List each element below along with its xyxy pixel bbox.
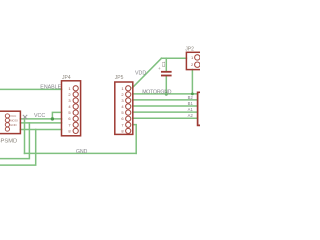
IC U right edge (partial) [198, 92, 201, 125]
wire exit left from IC pin3 net [0, 130, 36, 166]
svg-text:1: 1 [68, 86, 71, 91]
svg-text:JP5: JP5 [115, 75, 124, 81]
wire C1 bottom lead [165, 76, 167, 94]
svg-text:2: 2 [68, 92, 71, 97]
svg-text:6: 6 [68, 116, 71, 121]
capacitor C1 [161, 71, 172, 77]
wire VDD diagonal from JP5 pin1 [132, 58, 161, 88]
svg-text:MOTORGND: MOTORGND [142, 89, 172, 95]
svg-text:B2: B2 [188, 95, 194, 100]
wire C1 top lead [165, 58, 167, 71]
svg-text:VCC: VCC [10, 114, 17, 118]
svg-text:VCC: VCC [34, 113, 45, 119]
svg-text:2: 2 [121, 92, 124, 97]
svg-text:1: 1 [121, 86, 124, 91]
junction dot C1 on MOTORGND [165, 92, 168, 95]
svg-text:VDD: VDD [135, 71, 146, 77]
svg-text:3: 3 [68, 98, 71, 103]
wire A2 from JP5 pin6 [133, 117, 197, 119]
IC left header (partial, cut at edge) [0, 111, 20, 133]
wire JP2 pin2 drop to MOTORGND [191, 70, 193, 94]
svg-text:B1: B1 [188, 101, 194, 106]
svg-text:MOSI: MOSI [10, 119, 18, 123]
wire MOTORGND from JP5 pin2 to U right [133, 93, 197, 95]
svg-text:JP4: JP4 [62, 75, 71, 81]
svg-text:A1: A1 [188, 107, 194, 112]
connector JP4 [62, 81, 81, 136]
junction dot on VCC branch [51, 117, 54, 120]
svg-text:8: 8 [68, 128, 71, 133]
svg-text:JP2: JP2 [185, 47, 194, 53]
svg-text:6: 6 [121, 116, 124, 121]
wire ENABLE net to JP4 pin1 [0, 88, 62, 90]
wire GND horizontal run [25, 152, 137, 154]
svg-text:1: 1 [191, 55, 194, 60]
svg-text:ENABLE: ENABLE [40, 85, 61, 91]
junction dot JP2 pin2 on MOTORGND [191, 93, 194, 96]
wire VDD horizontal to JP2 pin1 [162, 57, 187, 59]
node X marker on GND drop [23, 115, 27, 119]
wire JP5 pin7 to GND run [133, 125, 136, 154]
wire branch VCC to JP4 pin5 [52, 112, 61, 119]
connector JP5 [115, 82, 133, 134]
connector JP2 [186, 52, 203, 69]
wire GND drop from VCC row at x24.5 [24, 119, 26, 153]
wire from IC pin3 to JP4 pin8 [20, 129, 61, 131]
wire exit left from IC pin2 net [0, 123, 29, 159]
svg-text:2: 2 [191, 62, 194, 67]
svg-text:3: 3 [121, 98, 124, 103]
svg-text:4: 4 [68, 104, 71, 109]
wire A1 from JP5 pin5 [133, 111, 197, 113]
svg-text:4: 4 [121, 104, 124, 109]
svg-text:5: 5 [68, 110, 71, 115]
svg-text:A2: A2 [188, 113, 194, 118]
wire VCC net from IC to JP4 pin6 [20, 118, 61, 120]
wire B2 from JP5 pin3 [133, 99, 197, 101]
svg-text:GND: GND [10, 123, 18, 127]
svg-text:GND: GND [76, 149, 88, 155]
svg-text:5: 5 [121, 110, 124, 115]
wire from IC pin2 to JP4 pin7 [20, 122, 61, 124]
svg-text:C1: C1 [161, 61, 166, 67]
svg-text:7: 7 [68, 122, 71, 127]
wire B1 from JP5 pin4 [133, 105, 197, 107]
svg-text:7: 7 [121, 122, 124, 127]
svg-text:SPSMD: SPSMD [0, 139, 17, 145]
svg-text:8: 8 [121, 128, 124, 133]
